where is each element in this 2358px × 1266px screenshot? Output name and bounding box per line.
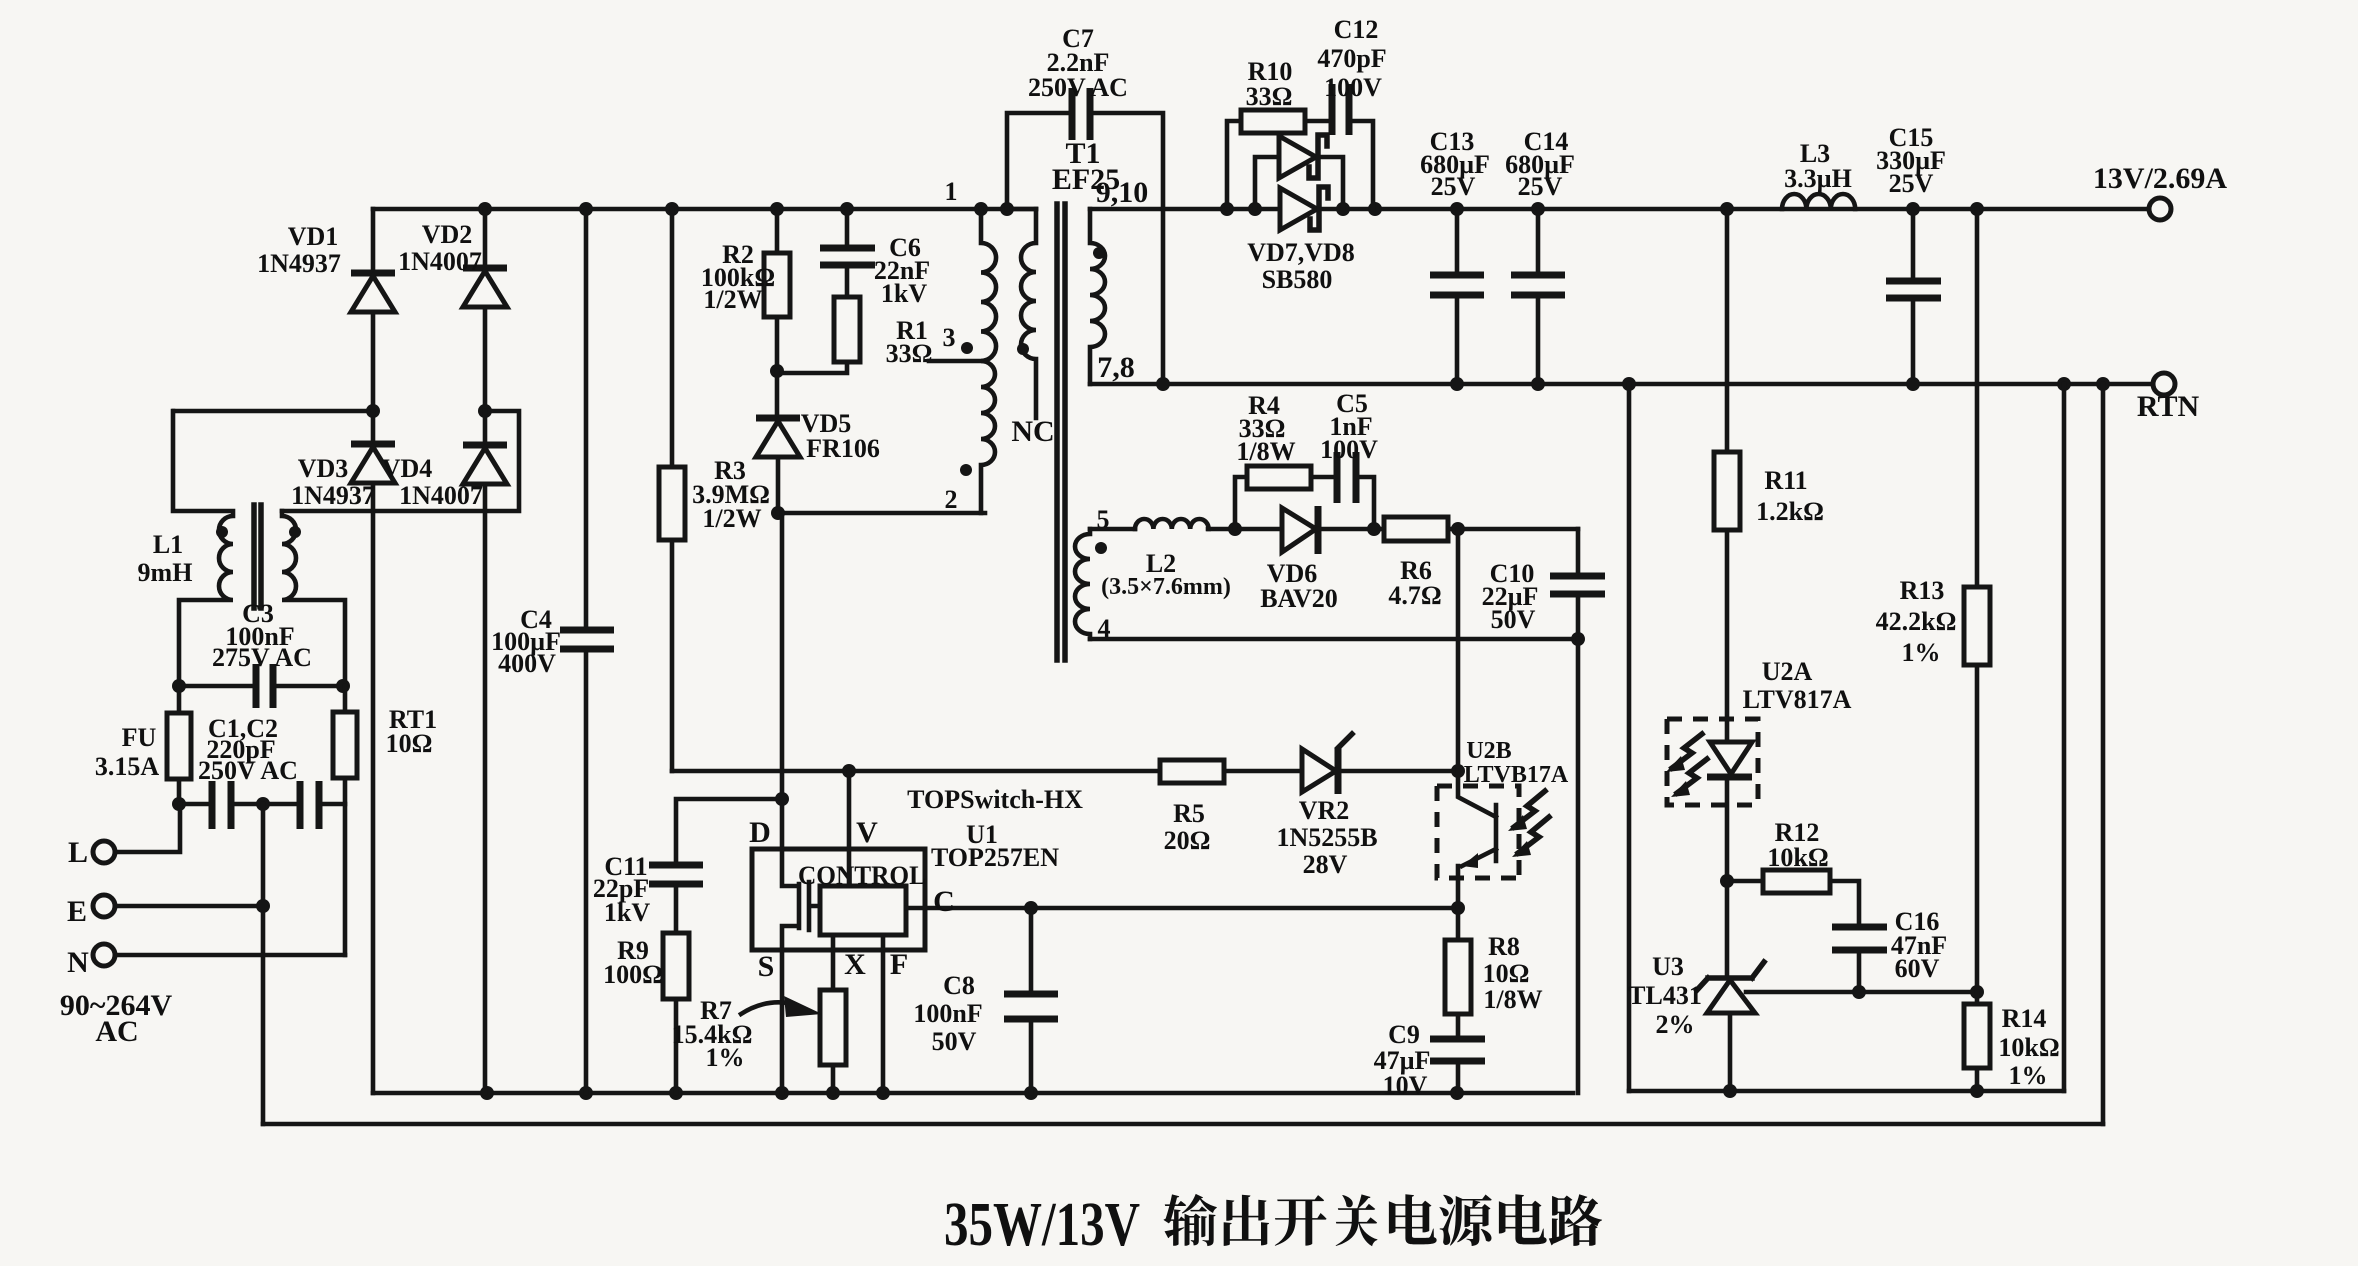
U1 MOSFET symbol bbox=[782, 849, 820, 950]
svg-text:20Ω: 20Ω bbox=[1164, 826, 1211, 855]
resistor R5 20ohm bbox=[1160, 760, 1224, 783]
capacitor C7 2.2nF 250V AC with loop bbox=[1007, 88, 1163, 384]
svg-text:1/2W: 1/2W bbox=[702, 504, 761, 533]
resistor R1 33ohm bbox=[777, 297, 860, 373]
svg-text:10Ω: 10Ω bbox=[1483, 959, 1530, 988]
svg-text:1%: 1% bbox=[2009, 1061, 2048, 1090]
svg-text:100Ω: 100Ω bbox=[603, 960, 663, 989]
node dot drain/pin2/VD5 junction bbox=[771, 506, 785, 520]
capacitor C9 47uF 10V bbox=[1430, 1039, 1485, 1093]
wire: F pin column bbox=[881, 935, 886, 1093]
wire: earth to RTN column bbox=[2101, 384, 2106, 1124]
inductor L2 (3.5x7.6mm) bbox=[1135, 519, 1209, 529]
wire: S pin column bbox=[780, 950, 785, 1093]
capacitor C13 680uF 25V bbox=[1430, 209, 1484, 384]
T1 secondary winding 9,10 - 7,8 bbox=[1090, 209, 1105, 384]
node dot T1 pin 1 bbox=[974, 202, 988, 216]
wire: earth column from C1/C2 mid down to earth line bbox=[261, 804, 266, 1124]
L1 core bars bbox=[254, 505, 261, 608]
wire: bias return column down to primary bus bbox=[1576, 639, 1581, 1093]
diode VD3 1N4937 bbox=[351, 411, 395, 1093]
T1 bias2 winding pins 5-4 bbox=[1075, 529, 1090, 639]
resistor R6 4.7ohm bbox=[1384, 517, 1578, 541]
capacitor C6 22nF 1kV bbox=[820, 209, 875, 297]
svg-text:VD1: VD1 bbox=[288, 222, 339, 251]
svg-text:250V AC: 250V AC bbox=[198, 756, 298, 785]
resistor R7 15.4kohm 1% bbox=[820, 990, 846, 1093]
resistor R12 10kohm bbox=[1727, 870, 1859, 927]
capacitor C8 100nF 50V bbox=[1004, 908, 1058, 1093]
node dot R2/R1/C6 clamp bottom bbox=[770, 364, 784, 378]
wire: bus to RTN right column bbox=[2062, 384, 2067, 1091]
svg-text:CONTROL: CONTROL bbox=[798, 861, 926, 890]
node AC2 junction dot bbox=[478, 404, 492, 418]
resistor R14 10kohm 1% bbox=[1964, 992, 1990, 1091]
U2B dashed box bbox=[1437, 786, 1519, 878]
L1 polarity dot left bbox=[216, 526, 228, 538]
svg-text:1/2W: 1/2W bbox=[703, 285, 762, 314]
U2A LED bbox=[1707, 719, 1752, 881]
node dot FU/C1/L junction bbox=[172, 797, 186, 811]
svg-text:D: D bbox=[749, 816, 771, 849]
zener VR2 1N5255B 28V bbox=[1302, 734, 1352, 794]
svg-text:2%: 2% bbox=[1656, 1010, 1695, 1039]
node dot E junction bbox=[256, 899, 270, 913]
capacitor C15 330uF 25V bbox=[1886, 209, 1941, 384]
U1 outer box bbox=[752, 849, 925, 950]
shunt reference U3 TL431 2% bbox=[1697, 881, 1764, 1091]
U2A dashed box bbox=[1667, 719, 1758, 805]
svg-text:13V/2.69A: 13V/2.69A bbox=[2093, 162, 2228, 195]
capacitor C1 bbox=[179, 781, 263, 829]
resistor R8 10ohm 1/8W bbox=[1445, 908, 1471, 1039]
node dot C8 on ground bus bbox=[1024, 1086, 1038, 1100]
svg-text:FU: FU bbox=[122, 723, 157, 752]
svg-text:FR106: FR106 bbox=[806, 434, 880, 463]
svg-text:E: E bbox=[67, 895, 87, 928]
svg-text:1.2kΩ: 1.2kΩ bbox=[1756, 497, 1824, 526]
node dot VD7 cathode branch bbox=[1336, 202, 1350, 216]
svg-text:2: 2 bbox=[945, 485, 958, 514]
svg-text:3.3µH: 3.3µH bbox=[1784, 164, 1852, 193]
node dot C7 to 7,8 rail bbox=[1156, 377, 1170, 391]
diode VD8 (lower, schottky, in series on rail) bbox=[1280, 187, 1328, 230]
node dot C13 top bbox=[1450, 202, 1464, 216]
svg-text:1/8W: 1/8W bbox=[1483, 985, 1542, 1014]
diode VD5 FR106 bbox=[756, 371, 800, 513]
wire: AC node 2 loop to right of VD4 bbox=[282, 411, 519, 511]
node dot snubber left bbox=[1228, 522, 1242, 536]
wire: C pin from control block bbox=[906, 906, 1458, 911]
svg-text:NC: NC bbox=[1011, 415, 1054, 448]
node dot C9 on ground bus bbox=[1450, 1086, 1464, 1100]
inductor L3 3.3uH bbox=[1782, 194, 1855, 209]
svg-text:BAV20: BAV20 bbox=[1260, 584, 1338, 613]
wire: C11 jog from drain column bbox=[676, 799, 782, 865]
svg-text:F: F bbox=[890, 948, 908, 981]
node dot RTN feedback column bbox=[1622, 377, 1636, 391]
wire: secondary top rail 9,10 to output bbox=[1090, 207, 2149, 212]
U2B phototransistor bbox=[1458, 771, 1496, 908]
bias winding polarity dot bbox=[1017, 343, 1029, 355]
wire: earth line along bottom bbox=[263, 1122, 2103, 1127]
svg-text:VD2: VD2 bbox=[422, 220, 473, 249]
capacitor C3 100nF 275V AC bbox=[179, 664, 343, 708]
node AC1 junction dot bbox=[366, 404, 380, 418]
node dot snubber right bbox=[1367, 522, 1381, 536]
node dot S pin on ground bus bbox=[775, 1086, 789, 1100]
terminal E bbox=[93, 895, 263, 917]
svg-text:1N4937: 1N4937 bbox=[291, 481, 375, 510]
node dot C16 bottom on ref line bbox=[1852, 985, 1866, 999]
svg-text:42.2kΩ: 42.2kΩ bbox=[1876, 607, 1957, 636]
node dot R6 output / U2B collector column bbox=[1451, 522, 1465, 536]
svg-text:25V: 25V bbox=[1889, 169, 1934, 198]
svg-text:R8: R8 bbox=[1488, 932, 1520, 961]
svg-text:25V: 25V bbox=[1518, 172, 1563, 201]
svg-text:C12: C12 bbox=[1334, 15, 1379, 44]
svg-text:N: N bbox=[67, 946, 89, 979]
svg-text:TL431: TL431 bbox=[1628, 981, 1702, 1010]
svg-text:C: C bbox=[933, 885, 955, 918]
svg-text:10Ω: 10Ω bbox=[386, 729, 433, 758]
svg-text:VD4: VD4 bbox=[382, 454, 433, 483]
svg-text:100V: 100V bbox=[1320, 435, 1378, 464]
node dot C7 tap on DC+ rail bbox=[1000, 202, 1014, 216]
svg-text:L: L bbox=[68, 836, 88, 869]
svg-text:V: V bbox=[856, 816, 878, 849]
L1 polarity dot right bbox=[289, 526, 301, 538]
svg-text:VD3: VD3 bbox=[298, 454, 349, 483]
resistor R4 33ohm 1/8W bbox=[1235, 466, 1337, 529]
svg-text:1N4937: 1N4937 bbox=[257, 249, 341, 278]
terminal N bbox=[93, 944, 345, 966]
node dot C10 bottom bbox=[1571, 632, 1585, 646]
diode VD6 BAV20 bbox=[1282, 506, 1384, 554]
node dot VD7 anode branch bbox=[1248, 202, 1262, 216]
resistor R11 1.2kohm bbox=[1714, 209, 1740, 719]
svg-text:VD7,VD8: VD7,VD8 bbox=[1247, 238, 1355, 267]
wire: pin3 stub bbox=[929, 359, 981, 364]
node dot C14 top bbox=[1531, 202, 1545, 216]
svg-text:7,8: 7,8 bbox=[1097, 351, 1135, 384]
wire: rail corner to bias winding top bbox=[1007, 207, 1036, 212]
snubber loop resistor R10 33ohm bbox=[1227, 110, 1332, 209]
diode VD7 (upper, schottky) bbox=[1255, 135, 1343, 209]
capacitor C10 22uF 50V bbox=[1550, 529, 1605, 639]
wire: pin2 to drain node bbox=[778, 511, 985, 516]
node dot C6 on DC+ rail bbox=[840, 202, 854, 216]
svg-text:S: S bbox=[758, 950, 775, 983]
svg-text:(3.5×7.6mm): (3.5×7.6mm) bbox=[1101, 574, 1231, 600]
wire: drain column down to U1 D pin bbox=[780, 513, 785, 849]
T1 pin3 polarity dot bbox=[961, 342, 973, 354]
svg-text:3: 3 bbox=[943, 323, 956, 352]
svg-text:L1: L1 bbox=[153, 530, 183, 559]
T1 bias winding (NC) bbox=[1021, 209, 1036, 418]
node dot C1/C2 mid junction bbox=[256, 797, 270, 811]
svg-text:C9: C9 bbox=[1388, 1020, 1420, 1049]
node dot C4 on DC+ rail bbox=[579, 202, 593, 216]
svg-text:100nF: 100nF bbox=[913, 999, 982, 1028]
svg-text:EF25: EF25 bbox=[1052, 163, 1120, 196]
svg-text:AC: AC bbox=[95, 1015, 138, 1048]
wire: primary ground bus left segment bbox=[373, 1091, 1573, 1096]
wire: TL431 ref line bbox=[1746, 990, 1977, 995]
svg-text:10kΩ: 10kΩ bbox=[1998, 1033, 2059, 1062]
inductor L1 right winding bbox=[282, 511, 345, 686]
svg-text:SB580: SB580 bbox=[1262, 265, 1333, 294]
wire: V pin into control block bbox=[847, 771, 852, 886]
U1 CONTROL block bbox=[820, 886, 906, 935]
node dot R2 on DC+ rail bbox=[770, 202, 784, 216]
node dot U2B collector bbox=[1451, 764, 1465, 778]
svg-text:50V: 50V bbox=[1491, 605, 1536, 634]
wire: V-pin feedback line bbox=[672, 769, 1458, 774]
T1 pin2 polarity dot bbox=[960, 464, 972, 476]
U2B light arrows bbox=[1508, 791, 1549, 857]
wire: top primary rail node DC+ bbox=[373, 207, 1036, 212]
node dot C15 top bbox=[1906, 202, 1920, 216]
resistor R9 100ohm bbox=[663, 884, 689, 1093]
svg-text:4.7Ω: 4.7Ω bbox=[1388, 581, 1441, 610]
T1 core bars bbox=[1057, 204, 1065, 660]
terminal L bbox=[93, 804, 180, 863]
node dot R7 on ground bus bbox=[826, 1086, 840, 1100]
diode VD1 1N4937 bbox=[351, 209, 395, 411]
svg-text:LTV817A: LTV817A bbox=[1743, 685, 1852, 714]
svg-text:33Ω: 33Ω bbox=[886, 339, 933, 368]
svg-text:250V AC: 250V AC bbox=[1028, 73, 1128, 102]
svg-text:275V AC: 275V AC bbox=[212, 643, 312, 672]
wire: RTN column down to secondary bus bbox=[1627, 384, 1632, 1091]
node dot C12 snubber right bbox=[1368, 202, 1382, 216]
svg-text:1N4007: 1N4007 bbox=[399, 481, 483, 510]
fuse FU 3.15A bbox=[167, 686, 191, 804]
svg-text:10kΩ: 10kΩ bbox=[1767, 843, 1828, 872]
svg-text:400V: 400V bbox=[498, 649, 556, 678]
node dot C8 top bbox=[1024, 901, 1038, 915]
title chinese characters as paths bbox=[1163, 1194, 1602, 1246]
svg-text:10V: 10V bbox=[1383, 1071, 1428, 1100]
node dot C4 on ground bus bbox=[579, 1086, 593, 1100]
svg-text:LTVB17A: LTVB17A bbox=[1464, 762, 1569, 788]
wire: U2B collector column from R6 node bbox=[1456, 529, 1461, 771]
capacitor C14 680uF 25V bbox=[1511, 209, 1565, 384]
terminal output 13V/2.69A bbox=[2149, 198, 2171, 220]
node dot C14 bottom bbox=[1531, 377, 1545, 391]
svg-text:VR2: VR2 bbox=[1299, 796, 1350, 825]
node dot inner return column on RTN bbox=[2057, 377, 2071, 391]
node dot earth column on RTN bbox=[2096, 377, 2110, 391]
capacitor C12 470pF 100V bbox=[1332, 84, 1373, 209]
svg-text:R13: R13 bbox=[1900, 576, 1945, 605]
svg-text:X: X bbox=[844, 948, 866, 981]
svg-text:60V: 60V bbox=[1895, 954, 1940, 983]
node dot VD2 on DC+ rail bbox=[478, 202, 492, 216]
svg-text:470pF: 470pF bbox=[1317, 44, 1386, 73]
svg-text:1kV: 1kV bbox=[881, 279, 927, 308]
svg-text:33Ω: 33Ω bbox=[1246, 82, 1293, 111]
resistor R2 100kohm 1/2W bbox=[764, 209, 790, 371]
resistor R3 3.9Mohm 1/2W bbox=[659, 209, 685, 771]
capacitor C2 bbox=[263, 781, 345, 829]
svg-text:28V: 28V bbox=[1303, 850, 1348, 879]
node dot R9 on ground bus bbox=[669, 1086, 683, 1100]
svg-text:R5: R5 bbox=[1173, 799, 1205, 828]
wire: secondary bottom rail 7,8 / RTN bbox=[1090, 382, 2153, 387]
node dot output rail at R13 column bbox=[1970, 202, 1984, 216]
diode VD2 1N4007 bbox=[463, 209, 507, 411]
node dot C13 bottom bbox=[1450, 377, 1464, 391]
resistor R13 42.2kohm 1% bbox=[1964, 209, 1990, 992]
svg-text:1kV: 1kV bbox=[604, 898, 650, 927]
svg-text:35W/13V: 35W/13V bbox=[944, 1191, 1140, 1259]
node dot output rail at R11 column bbox=[1720, 202, 1734, 216]
R7 pointer arrow bbox=[741, 1002, 793, 1014]
node dot V pin column bbox=[842, 764, 856, 778]
svg-text:1: 1 bbox=[945, 177, 958, 206]
node dot F pin on ground bus bbox=[876, 1086, 890, 1100]
svg-text:50V: 50V bbox=[932, 1027, 977, 1056]
svg-text:1%: 1% bbox=[706, 1043, 745, 1072]
node dot VD4 anode on ground bus bbox=[480, 1086, 494, 1100]
svg-text:1N5255B: 1N5255B bbox=[1276, 823, 1377, 852]
thermistor RT1 10 ohm bbox=[333, 686, 357, 955]
svg-text:TOPSwitch-HX: TOPSwitch-HX bbox=[907, 785, 1083, 814]
T1 primary winding pin1-3-2 bbox=[981, 209, 996, 513]
node dot U3 anode on bus bbox=[1723, 1084, 1737, 1098]
capacitor C16 47nF 60V bbox=[1832, 927, 1887, 992]
winding 5 polarity dot bbox=[1095, 542, 1107, 554]
wire: X pin column bbox=[831, 935, 836, 990]
svg-text:R11: R11 bbox=[1764, 466, 1807, 495]
node dot R3 on DC+ rail bbox=[665, 202, 679, 216]
node dot C3 left bbox=[172, 679, 186, 693]
svg-text:100V: 100V bbox=[1324, 73, 1382, 102]
svg-text:1/8W: 1/8W bbox=[1236, 437, 1295, 466]
svg-text:U2B: U2B bbox=[1466, 738, 1511, 764]
node dot R10 snubber left bbox=[1220, 202, 1234, 216]
svg-text:TOP257EN: TOP257EN bbox=[931, 843, 1059, 872]
U2A emitted light arrows bbox=[1666, 734, 1707, 797]
capacitor C4 100uF 400V bbox=[560, 209, 614, 1093]
wire: pin4 rail to C10 bottom bbox=[1090, 637, 1578, 642]
svg-text:RTN: RTN bbox=[2137, 390, 2200, 423]
wire: L2 to VD6 bbox=[1208, 527, 1282, 532]
wire: AC node 1 from L1 to VD1/VD3 junction bbox=[174, 409, 373, 414]
node dot ref/R13/R14 junction bbox=[1970, 985, 1984, 999]
wire: pin5 rail bbox=[1090, 527, 1135, 532]
svg-text:R14: R14 bbox=[2002, 1004, 2047, 1033]
node dot C15 bottom bbox=[1906, 377, 1920, 391]
node dot LED cathode / R12 junction bbox=[1720, 874, 1734, 888]
diode VD4 1N4007 bbox=[463, 411, 507, 1093]
svg-text:U3: U3 bbox=[1652, 952, 1684, 981]
capacitor C11 22pF 1kV bbox=[649, 865, 703, 884]
svg-text:U2A: U2A bbox=[1762, 657, 1813, 686]
node dot drain/C11 junction bbox=[775, 792, 789, 806]
node dot R14 bottom on bus bbox=[1970, 1084, 1984, 1098]
node dot C3 right bbox=[336, 679, 350, 693]
svg-text:C8: C8 bbox=[943, 971, 975, 1000]
svg-text:9mH: 9mH bbox=[138, 558, 193, 587]
wire: secondary ground bus right segment bbox=[1629, 1089, 2064, 1094]
svg-text:1N4007: 1N4007 bbox=[398, 247, 482, 276]
svg-text:3.15A: 3.15A bbox=[95, 752, 160, 781]
node dot U2B emitter / C line bbox=[1451, 901, 1465, 915]
inductor L1 9mH common-mode choke: left winding bbox=[173, 411, 233, 686]
capacitor C5 1nF 100V bbox=[1337, 452, 1374, 529]
svg-text:25V: 25V bbox=[1431, 172, 1476, 201]
terminal RTN bbox=[2153, 373, 2175, 395]
svg-text:1%: 1% bbox=[1902, 638, 1941, 667]
secondary polarity dot bbox=[1093, 247, 1105, 259]
